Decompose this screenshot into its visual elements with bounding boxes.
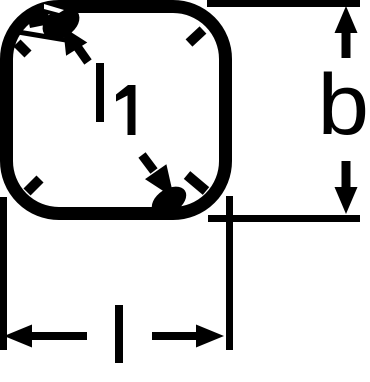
l1 arrow upper head (63, 27, 87, 56)
extension line right vertical (l) (226, 196, 233, 350)
l dimension arrow right shaft (152, 332, 198, 340)
label l1 letter l (96, 63, 104, 122)
b dimension arrow down shaft (342, 161, 351, 190)
label l (115, 305, 123, 363)
extension line left vertical (l) (0, 197, 7, 350)
l1 arrow upper shaft (76, 45, 88, 62)
label l1 subscript 1 (116, 85, 136, 135)
contact dot bottom-right (147, 181, 192, 222)
contact dot top-left (37, 0, 86, 45)
l dimension arrow left shaft (28, 332, 87, 340)
l1 arrow lower shaft (142, 155, 154, 171)
l1 arrow lower head (145, 164, 174, 198)
l dimension arrow left head (4, 325, 32, 348)
b dimension arrow up shaft (342, 30, 351, 58)
l dimension arrow right head (196, 325, 224, 348)
extension line below body (b) (208, 215, 360, 222)
corner tick bottom-left (27, 179, 40, 192)
body outline (rounded square) (7, 7, 226, 214)
corner tick top-left (17, 43, 28, 54)
fill between arc and top-left dot (26, 10, 50, 28)
corner tick top-right (189, 30, 203, 43)
b dimension arrow down head (335, 187, 358, 214)
extension line top (207, 0, 360, 7)
b dimension arrow up head (335, 6, 358, 33)
svg-text:b: b (318, 57, 370, 153)
white sliver above top-left dot (44, 4, 64, 13)
corner tick bottom-right (187, 175, 206, 191)
l1 line continuation to arc (thin) (18, 32, 66, 40)
